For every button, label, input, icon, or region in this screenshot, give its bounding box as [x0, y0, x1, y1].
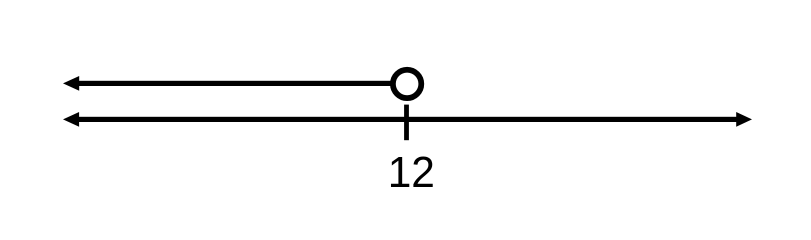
open circle at 12 (endpoint not included)	[393, 70, 421, 98]
number line shaft	[76, 117, 738, 122]
ray shaft (solution ray x &lt; 12, pointing left)	[76, 81, 391, 86]
ray left arrowhead	[63, 76, 79, 91]
tick mark at 12	[404, 105, 409, 141]
svg-text:12: 12	[388, 149, 435, 197]
number line left arrowhead	[63, 112, 79, 127]
number line right arrowhead	[736, 112, 752, 127]
